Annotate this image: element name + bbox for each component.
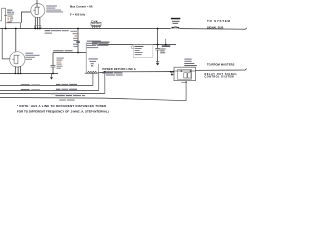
heater base box	[34, 26, 41, 29]
switch S1	[170, 27, 180, 30]
inductor L1	[87, 71, 96, 73]
label text under bus	[45, 30, 51, 31]
svg-text:POWER RETURN LINE A: POWER RETURN LINE A	[102, 68, 136, 71]
bypass labels	[162, 45, 170, 47]
switch S1 labels	[172, 21, 180, 22]
below tuner label	[51, 93, 58, 94]
riser label	[102, 72, 113, 73]
label text V2	[25, 53, 33, 54]
svg-text:SIGNAL BUS: SIGNAL BUS	[207, 26, 224, 29]
svg-text:F = 455 kHz: F = 455 kHz	[70, 12, 86, 16]
wire riser x104.8	[104, 72, 106, 94]
wire	[0, 20, 2, 22]
V2 legs	[15, 66, 20, 74]
callout box N1	[133, 45, 153, 58]
V2 internal electrodes	[12, 55, 19, 64]
junction dots on line2	[157, 44, 159, 46]
F1 pins	[92, 25, 99, 28]
wire V1 grid lead	[21, 12, 31, 23]
junction dots on bus	[5, 28, 159, 30]
ground arrow on line3	[51, 74, 53, 78]
capacitor plate tick	[4, 14, 7, 16]
wire line2 AVC	[99, 44, 177, 46]
capacitor C2	[155, 49, 160, 50]
tuner line B labels	[21, 89, 30, 90]
IF transformer left lead	[85, 43, 87, 73]
wire line3 left	[0, 73, 58, 75]
relay contact square 1	[184, 73, 187, 78]
W4 label	[53, 50, 63, 51]
bus wire right segment	[180, 28, 247, 30]
wire down from W4	[52, 53, 54, 66]
wire riser x92.9	[92, 73, 94, 85]
fuse box F1	[91, 22, 101, 25]
wire riser x98.7	[98, 73, 100, 90]
V1 internal electrodes	[33, 7, 40, 14]
label text T1 values	[7, 10, 12, 11]
antenna coil T1	[2, 8, 6, 28]
callout box N1 text	[135, 46, 144, 47]
wire tuner line B	[0, 90, 99, 92]
wire W4	[53, 52, 86, 54]
C1 labels	[57, 58, 64, 59]
capacitor on resistor wire	[76, 41, 80, 42]
relay K1 outer box	[174, 67, 196, 81]
relay inner dots	[181, 70, 183, 72]
wire V2 grid feed	[2, 29, 10, 59]
relay bottom pin	[185, 81, 187, 101]
V1 legs	[35, 17, 40, 29]
line2 labels	[92, 42, 110, 43]
fuse label pins text	[92, 26, 101, 27]
svg-text:TO SYSTEM: TO SYSTEM	[207, 19, 231, 23]
svg-text:* NOTE: HAS A LINE TO DIFFEREN: * NOTE: HAS A LINE TO DIFFERENT DISTANCE…	[17, 104, 106, 108]
wire stub	[165, 39, 167, 45]
relay inner box	[177, 70, 191, 80]
bus wire B+	[0, 28, 170, 30]
wire line4 bottom	[0, 98, 186, 101]
svg-text:CHK: CHK	[91, 19, 98, 23]
relay contact square 2	[188, 73, 191, 78]
relay inner wire	[174, 70, 196, 72]
switch S1 name	[171, 18, 180, 20]
line4 label below	[59, 100, 66, 101]
tube V1	[31, 4, 45, 18]
wire line3 right	[85, 72, 174, 74]
wire tuner line A	[0, 85, 93, 87]
svg-text:CONTROL SYSTEM: CONTROL SYSTEM	[205, 76, 235, 79]
wire grid feed V1	[6, 23, 21, 29]
IF transformer right lead	[98, 64, 100, 73]
tuner line A labels	[21, 84, 30, 85]
resistor value labels	[70, 31, 77, 32]
relay K1 label above	[184, 59, 191, 60]
ground	[156, 61, 159, 63]
svg-text:Max Current = 8A: Max Current = 8A	[70, 5, 93, 9]
wire line5 to masters	[196, 69, 247, 71]
svg-text:FOR TO DIFFERENT FREQUENCY OF: FOR TO DIFFERENT FREQUENCY OF .5 MHZ .A.…	[17, 110, 109, 114]
svg-text:TO/FROM MASTERS: TO/FROM MASTERS	[207, 62, 235, 66]
relay pin stub	[181, 81, 186, 83]
wire tuner line C	[0, 93, 105, 95]
junction dots relay pins	[170, 71, 172, 73]
B1 box text	[87, 41, 101, 42]
terminal circle	[131, 46, 134, 49]
resistor chain wire	[77, 29, 79, 53]
wire V2 plate lead	[15, 29, 17, 53]
label text V1	[46, 6, 57, 7]
V1 plate lead	[36, 0, 38, 7]
capacitor C1	[51, 66, 56, 67]
line4 label above	[55, 95, 64, 96]
tube V2	[10, 52, 25, 67]
wire bypass branch	[157, 29, 159, 49]
